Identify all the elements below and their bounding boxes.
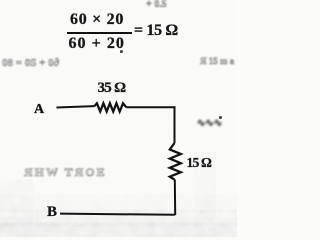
circuit wires and resistors: [0, 0, 237, 237]
wire bottom from corner to node B: [60, 214, 175, 215]
ghost print-through bottom left: [24, 166, 107, 178]
equation denominator 60 + 20: [69, 36, 125, 52]
resistor value label 15 Ω: [187, 156, 212, 170]
ink speck small: [120, 50, 123, 53]
resistor R2 15 Ω zigzag: [170, 143, 181, 180]
wire right vertical upper segment: [174, 106, 176, 143]
node B label: [47, 205, 57, 220]
fraction bar: [67, 32, 132, 34]
ink speck: [219, 116, 222, 119]
scan paper noise: [0, 0, 237, 237]
ghost print-through right mid: [200, 57, 234, 66]
node A label: [34, 103, 44, 117]
ghost print-through top right: [146, 0, 167, 10]
ghost print-through left: [2, 58, 59, 69]
equation numerator 60 × 20: [70, 12, 124, 28]
wire right vertical lower segment: [174, 180, 176, 215]
ghost squiggle right: [197, 119, 222, 129]
wire from R1 to top-right corner: [126, 106, 174, 108]
wire from node A to resistor R1: [57, 106, 95, 107]
equation result = 15 Ω: [134, 23, 178, 39]
resistor R1 35 Ω zigzag: [95, 103, 127, 111]
resistor value label 35 Ω: [98, 81, 126, 96]
